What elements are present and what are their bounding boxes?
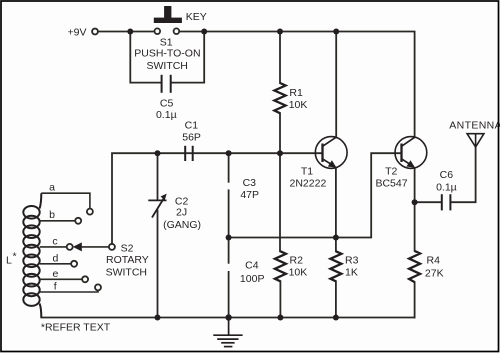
svg-text:2N2222: 2N2222 bbox=[290, 177, 327, 189]
capacitor C1 bbox=[182, 119, 201, 161]
wire top rail left segment bbox=[98, 31, 154, 33]
svg-text:C1: C1 bbox=[185, 119, 199, 131]
wire T1 collector lead bbox=[335, 32, 337, 138]
rotary switch S2 wiper bbox=[73, 242, 149, 278]
svg-text:10K: 10K bbox=[289, 99, 308, 111]
capacitor C5 bbox=[156, 75, 177, 121]
battery terminal node +9V bbox=[68, 27, 98, 39]
svg-text:S1: S1 bbox=[160, 36, 173, 48]
coil tap e bbox=[40, 268, 88, 282]
wire top rail right segment bbox=[179, 32, 414, 138]
resistor R3 bbox=[330, 251, 358, 281]
wire R3 bottom lead bbox=[335, 281, 337, 317]
svg-text:(GANG): (GANG) bbox=[163, 219, 201, 231]
wire C2 branch bottom bbox=[157, 211, 159, 318]
svg-text:1K: 1K bbox=[345, 267, 358, 279]
svg-text:R4: R4 bbox=[427, 255, 441, 267]
wire R1 top lead bbox=[279, 32, 281, 84]
svg-text:27K: 27K bbox=[425, 267, 444, 279]
svg-text:56P: 56P bbox=[182, 132, 201, 144]
svg-text:PUSH-TO-ON: PUSH-TO-ON bbox=[134, 48, 200, 60]
svg-text:a: a bbox=[49, 182, 55, 194]
svg-text:S2: S2 bbox=[121, 242, 134, 254]
svg-text:+9V: +9V bbox=[68, 27, 87, 39]
svg-text:BC547: BC547 bbox=[375, 177, 407, 189]
svg-text:c: c bbox=[52, 235, 57, 247]
coil tap d bbox=[40, 252, 77, 267]
wire T1 emitter lead / R3 top lead bbox=[335, 168, 337, 252]
svg-text:e: e bbox=[52, 268, 58, 280]
inductor L coil bbox=[23, 193, 41, 317]
capacitor C4 bbox=[240, 260, 265, 285]
coil tap a bbox=[41, 182, 93, 215]
wire C6 row right to antenna bbox=[451, 147, 475, 202]
wire T2 emitter lead / R4 top lead bbox=[414, 168, 416, 251]
wire R1 bottom lead / R2 top lead bbox=[279, 113, 281, 251]
wire C2 branch top bbox=[157, 153, 159, 200]
variable capacitor C2 bbox=[148, 194, 201, 232]
ground bbox=[213, 318, 242, 347]
svg-text:C2: C2 bbox=[175, 195, 189, 207]
svg-text:C3: C3 bbox=[243, 177, 257, 189]
key pushbutton actuator bbox=[154, 6, 207, 23]
wire mid rail bbox=[112, 153, 323, 244]
resistor R4 bbox=[409, 251, 443, 282]
wire C3 branch top bbox=[228, 153, 230, 182]
wire S1 box left side bbox=[130, 32, 161, 83]
coil tap f bbox=[40, 280, 101, 292]
svg-text:b: b bbox=[49, 209, 55, 221]
svg-text:f: f bbox=[54, 280, 57, 292]
svg-text:ROTARY: ROTARY bbox=[106, 254, 149, 266]
wire S1 box right side bbox=[171, 32, 204, 83]
svg-text:SWITCH: SWITCH bbox=[146, 60, 187, 72]
svg-text:T2: T2 bbox=[385, 165, 397, 177]
svg-text:SWITCH: SWITCH bbox=[106, 266, 147, 278]
svg-text:KEY: KEY bbox=[186, 11, 207, 23]
svg-text:C6: C6 bbox=[440, 169, 454, 181]
svg-text:C4: C4 bbox=[245, 260, 259, 272]
transistor T1 bbox=[290, 137, 348, 190]
wire R2 bottom lead bbox=[279, 281, 281, 317]
resistor R2 bbox=[275, 251, 307, 281]
resistor R1 bbox=[274, 83, 307, 113]
svg-text:*REFER TEXT: *REFER TEXT bbox=[41, 322, 111, 334]
svg-text:10K: 10K bbox=[289, 267, 308, 279]
svg-text:d: d bbox=[52, 252, 58, 264]
svg-text:ANTENNA: ANTENNA bbox=[449, 120, 500, 132]
coil tap b bbox=[40, 209, 81, 224]
wire C4 branch bottom bbox=[228, 272, 230, 318]
inductor label L* bbox=[6, 251, 17, 267]
wire base rail y237 bbox=[229, 153, 402, 237]
coil tap c bbox=[40, 235, 73, 250]
svg-text:100P: 100P bbox=[240, 273, 265, 285]
wire R4 bottom lead bbox=[414, 282, 416, 317]
svg-text:47P: 47P bbox=[240, 189, 259, 201]
svg-text:R2: R2 bbox=[290, 255, 304, 267]
capacitor C3 bbox=[240, 177, 259, 201]
svg-text:C5: C5 bbox=[160, 98, 174, 110]
capacitor C6 bbox=[436, 169, 457, 211]
svg-text:*: * bbox=[13, 251, 17, 263]
wire C6 row left bbox=[415, 201, 441, 203]
svg-text:T1: T1 bbox=[301, 165, 313, 177]
transistor T2 bbox=[375, 137, 426, 190]
wire C3 branch bottom bbox=[228, 190, 230, 237]
wire C4 branch top bbox=[228, 238, 230, 263]
svg-text:0.1µ: 0.1µ bbox=[436, 182, 457, 194]
svg-text:R1: R1 bbox=[289, 87, 303, 99]
svg-text:2J: 2J bbox=[176, 207, 187, 219]
svg-text:L: L bbox=[6, 254, 12, 266]
switch S1 contacts bbox=[134, 28, 200, 71]
svg-text:R3: R3 bbox=[345, 255, 359, 267]
wire bottom rail bbox=[41, 317, 414, 319]
antenna bbox=[449, 120, 500, 147]
svg-text:0.1µ: 0.1µ bbox=[156, 109, 177, 121]
